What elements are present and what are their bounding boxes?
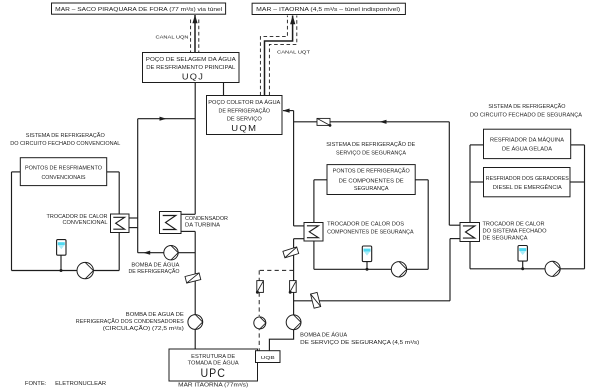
svg-text:RESFRIADOR DA MÁQUINA: RESFRIADOR DA MÁQUINA bbox=[490, 136, 565, 143]
svg-text:DE SERVIÇO DE SEGURANÇA (4,5 m: DE SERVIÇO DE SEGURANÇA (4,5 m³/s) bbox=[300, 340, 419, 346]
svg-text:DE REFRIGERAÇÃO: DE REFRIGERAÇÃO bbox=[219, 107, 271, 114]
svg-text:CONDENSADOR: CONDENSADOR bbox=[185, 216, 228, 222]
svg-text:DE SEGURANÇA: DE SEGURANÇA bbox=[483, 236, 529, 242]
svg-text:(CIRCULAÇÃO) (72,5 m³/s): (CIRCULAÇÃO) (72,5 m³/s) bbox=[103, 325, 184, 332]
svg-text:DE ÁGUA GELADA: DE ÁGUA GELADA bbox=[502, 146, 553, 153]
svg-text:COMPONENTES DE SEGURANÇA: COMPONENTES DE SEGURANÇA bbox=[327, 229, 414, 235]
svg-text:SISTEMA DE REFRIGERAÇÃO: SISTEMA DE REFRIGERAÇÃO bbox=[488, 103, 565, 110]
svg-text:MAR – SACO PIRAQUARA DE FORA: MAR – SACO PIRAQUARA DE FORA (77 m³/s) v… bbox=[55, 7, 222, 13]
svg-text:BOMBA DE ÁGUA: BOMBA DE ÁGUA bbox=[131, 262, 180, 269]
svg-text:TROCADOR DE CALOR: TROCADOR DE CALOR bbox=[483, 222, 545, 228]
svg-text:DO SISTEMA FECHADO: DO SISTEMA FECHADO bbox=[483, 229, 547, 235]
svg-text:UQM: UQM bbox=[231, 123, 257, 133]
svg-text:PONTOS DE RESFRIAMENTO: PONTOS DE RESFRIAMENTO bbox=[25, 166, 102, 172]
svg-text:DE REFRIGERAÇÃO: DE REFRIGERAÇÃO bbox=[129, 268, 180, 275]
svg-text:DE RESFRIAMENTO PRINCIPAL: DE RESFRIAMENTO PRINCIPAL bbox=[146, 65, 235, 71]
svg-text:TROCADOR DE CALOR DOS: TROCADOR DE CALOR DOS bbox=[327, 222, 405, 228]
svg-text:MAR ITAORNA (77m³/s): MAR ITAORNA (77m³/s) bbox=[178, 383, 248, 389]
svg-text:CANAL UQN: CANAL UQN bbox=[156, 35, 190, 41]
svg-text:DIESEL DE EMERGÊNCIA: DIESEL DE EMERGÊNCIA bbox=[493, 183, 563, 191]
svg-text:CONVENCIONAL: CONVENCIONAL bbox=[63, 220, 108, 226]
svg-text:ELETRONUCLEAR: ELETRONUCLEAR bbox=[55, 381, 106, 387]
svg-text:SERVIÇO DE SEGURANÇA: SERVIÇO DE SEGURANÇA bbox=[336, 151, 407, 157]
svg-text:SISTEMA DE REFRIGERAÇÃO DE: SISTEMA DE REFRIGERAÇÃO DE bbox=[326, 141, 416, 148]
svg-text:DA TURBINA: DA TURBINA bbox=[185, 223, 221, 229]
svg-text:RESFRIADOR DOS GERADORES: RESFRIADOR DOS GERADORES bbox=[486, 176, 570, 182]
svg-text:CANAL UQT: CANAL UQT bbox=[277, 50, 310, 56]
svg-text:BOMBA DE AGUA DE: BOMBA DE AGUA DE bbox=[126, 312, 185, 318]
svg-text:CONVENCIONAIS: CONVENCIONAIS bbox=[42, 175, 87, 181]
svg-text:BOMBA DE ÁGUA: BOMBA DE ÁGUA bbox=[300, 332, 348, 339]
svg-text:MAR – ITAORNA (4,5 m³/s –: MAR – ITAORNA (4,5 m³/s – túnel indispon… bbox=[256, 7, 400, 13]
svg-text:DO CIRCUITO FECHADO CONVENCION: DO CIRCUITO FECHADO CONVENCIONAL bbox=[10, 141, 120, 147]
svg-text:SISTEMA DE REFRIGERAÇÃO: SISTEMA DE REFRIGERAÇÃO bbox=[26, 132, 105, 139]
svg-text:DE COMPONENTES DE: DE COMPONENTES DE bbox=[339, 178, 405, 184]
svg-text:DE SERVIÇO: DE SERVIÇO bbox=[227, 116, 262, 122]
svg-text:REFRIGERAÇÃO DOS CONDENSADORES: REFRIGERAÇÃO DOS CONDENSADORES bbox=[76, 318, 185, 325]
svg-text:POÇO COLETOR DA ÁGUA: POÇO COLETOR DA ÁGUA bbox=[208, 99, 281, 106]
svg-text:UQB: UQB bbox=[261, 355, 275, 361]
svg-text:FONTE:: FONTE: bbox=[25, 381, 47, 387]
svg-text:TROCADOR DE CALOR: TROCADOR DE CALOR bbox=[47, 214, 108, 220]
svg-text:UQJ: UQJ bbox=[182, 72, 204, 82]
svg-text:ESTRUTURA DE: ESTRUTURA DE bbox=[191, 354, 236, 360]
svg-text:SEGURANÇA: SEGURANÇA bbox=[354, 186, 389, 192]
svg-text:UPC: UPC bbox=[200, 366, 226, 380]
svg-text:POÇO DE SELAGEM DA ÁGUA: POÇO DE SELAGEM DA ÁGUA bbox=[146, 56, 237, 63]
svg-text:PONTOS DE REFRIGERAÇÃO: PONTOS DE REFRIGERAÇÃO bbox=[333, 168, 410, 175]
svg-text:DO CIRCUITO FECHADO DE SEGURAN: DO CIRCUITO FECHADO DE SEGURANÇA bbox=[470, 113, 583, 119]
